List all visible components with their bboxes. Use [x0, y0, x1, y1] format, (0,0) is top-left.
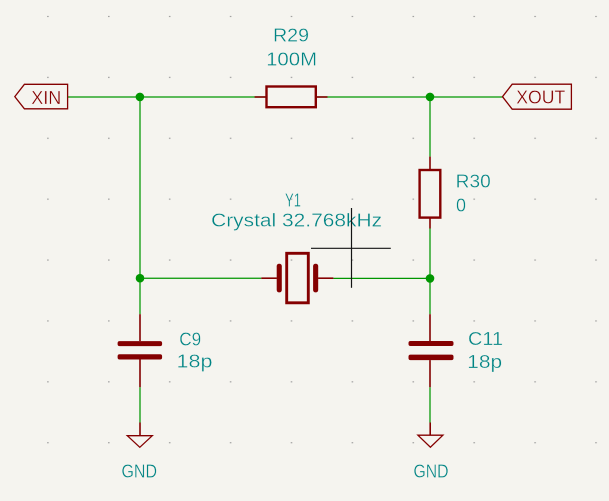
- wire R29 to XOUT: [316, 96, 502, 98]
- svg-text:18p: 18p: [467, 352, 502, 372]
- junction at XIN rail: [136, 93, 145, 102]
- svg-text:XOUT: XOUT: [516, 88, 565, 108]
- ground right: [418, 423, 443, 448]
- wire crystal left: [140, 277, 261, 279]
- svg-text:100M: 100M: [266, 50, 317, 70]
- svg-text:Y1: Y1: [285, 191, 301, 211]
- svg-text:18p: 18p: [177, 352, 213, 372]
- hierarchical label XOUT: [503, 84, 572, 109]
- resistor R30: [420, 157, 441, 229]
- svg-text:R29: R29: [273, 26, 309, 46]
- wire XIN to R29: [68, 96, 266, 98]
- svg-text:R30: R30: [456, 172, 491, 192]
- wire left rail below C9: [139, 387, 141, 422]
- svg-text:GND: GND: [414, 462, 449, 482]
- svg-text:XIN: XIN: [31, 88, 61, 108]
- svg-text:GND: GND: [122, 462, 158, 482]
- svg-text:Crystal 32.768kHz: Crystal 32.768kHz: [211, 211, 382, 231]
- svg-text:C11: C11: [468, 329, 503, 349]
- wire right rail below C11: [429, 387, 431, 422]
- resistor R29: [255, 87, 328, 108]
- wire crystal right: [333, 277, 430, 279]
- junction at XOUT rail: [426, 93, 435, 102]
- hierarchical label XIN: [15, 84, 68, 109]
- capacitor C11: [409, 314, 454, 387]
- wire right rail top: [429, 97, 431, 157]
- wire left rail top: [139, 97, 141, 314]
- crystal Y1: [261, 253, 333, 302]
- junction left crystal row: [136, 274, 145, 283]
- svg-text:0: 0: [456, 196, 466, 216]
- svg-text:C9: C9: [179, 330, 201, 350]
- ground left: [127, 423, 152, 448]
- capacitor C9: [118, 314, 163, 387]
- junction right crystal row: [426, 274, 435, 283]
- cursor crosshair: [311, 208, 391, 288]
- wire right rail mid: [429, 229, 431, 315]
